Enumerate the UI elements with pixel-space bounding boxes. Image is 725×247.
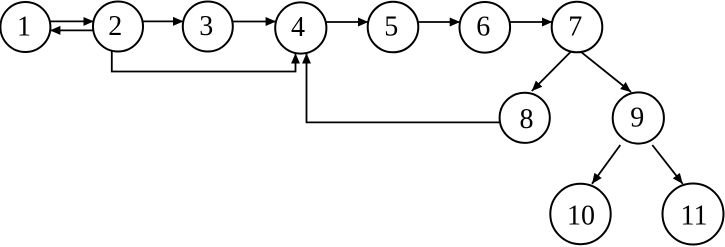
svg-text:10: 10 [567,200,595,231]
node 8 [500,93,550,143]
svg-text:8: 8 [520,104,534,135]
node 5 [368,2,419,53]
edge 7->9 [582,52,632,92]
node 9 [613,92,664,143]
node 7 [552,2,603,53]
edge 4->5 [326,21,369,23]
svg-text:5: 5 [384,12,398,43]
node 11 [663,184,724,245]
edge 5->6 [418,21,460,23]
node 6 [460,2,511,53]
edge 9->10 [592,145,620,184]
edge 6->7 [510,21,553,23]
svg-text:6: 6 [476,12,490,43]
svg-text:1: 1 [17,12,31,43]
edge 3->4 [232,21,276,23]
svg-text:2: 2 [108,11,122,42]
node 3 [183,2,233,52]
node 4 [275,2,326,53]
node 1 [0,2,50,52]
node 2 [93,2,143,52]
edge 8->4 (left from 8 along y=122.4, up into 4) [307,53,500,122]
svg-text:4: 4 [291,12,305,43]
edge 2->4 (down from 2, right along y=71.5, up into 4) [112,51,296,72]
edge 2->1 [50,29,94,31]
edge 2->3 [142,20,183,22]
edge 1->2 [50,20,94,22]
edge 7->8 [532,52,571,91]
svg-text:9: 9 [630,103,644,134]
node 10 [550,184,610,244]
svg-text:11: 11 [681,200,708,231]
svg-text:7: 7 [568,12,582,43]
svg-text:3: 3 [199,11,213,42]
edge 9->11 [652,145,682,184]
